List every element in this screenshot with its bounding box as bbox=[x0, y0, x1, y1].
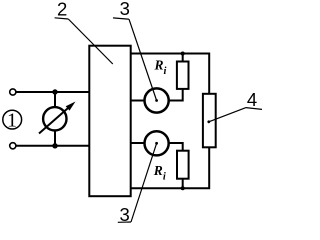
source G1 adjustable circle bbox=[43, 107, 66, 130]
leader label 3 upper bbox=[113, 18, 157, 101]
wire lower meter right bbox=[169, 143, 183, 151]
junction upper bbox=[52, 89, 57, 94]
terminal upper bbox=[10, 89, 16, 95]
source G1 arrow bbox=[39, 102, 76, 134]
junction lower bbox=[52, 143, 57, 148]
resistor Ri lower bbox=[177, 151, 189, 179]
wire top rail bbox=[131, 54, 210, 94]
meter P1 upper circle bbox=[145, 88, 169, 112]
svg-text:1: 1 bbox=[7, 109, 17, 131]
svg-text:Ri: Ri bbox=[153, 163, 166, 183]
leader label 4 bbox=[209, 108, 262, 122]
block U2 transmitter bbox=[89, 46, 130, 197]
svg-text:2: 2 bbox=[57, 0, 67, 19]
leader label 3 lower bbox=[118, 143, 157, 222]
resistor R4 bbox=[203, 94, 216, 148]
terminal lower bbox=[10, 143, 16, 149]
svg-text:4: 4 bbox=[247, 89, 257, 110]
wire upper meter right bbox=[169, 89, 183, 101]
leader dot lower meter bbox=[155, 142, 158, 145]
meter P2 lower circle bbox=[145, 131, 169, 155]
wire upper input bbox=[16, 91, 89, 93]
resistor Ri upper bbox=[177, 62, 189, 89]
wire Ri upper stub bbox=[182, 54, 184, 62]
wire lower input bbox=[16, 145, 89, 147]
wire Ri lower stub bbox=[182, 179, 184, 189]
leader label 2 bbox=[55, 18, 113, 64]
junction Ri lower / bottom rail bbox=[181, 186, 185, 190]
wire lower meter left bbox=[131, 142, 145, 144]
wire source upper stub bbox=[54, 92, 56, 107]
svg-text:Ri: Ri bbox=[154, 58, 167, 78]
junction Ri upper / top rail bbox=[181, 52, 185, 56]
wire source lower stub bbox=[54, 131, 56, 146]
label 1 circled bbox=[3, 109, 22, 131]
leader dot upper meter bbox=[155, 99, 158, 102]
wire bottom rail bbox=[131, 147, 210, 188]
wire upper meter left bbox=[131, 100, 145, 102]
svg-text:3: 3 bbox=[120, 0, 130, 19]
leader dot resistor 4 bbox=[207, 120, 210, 123]
